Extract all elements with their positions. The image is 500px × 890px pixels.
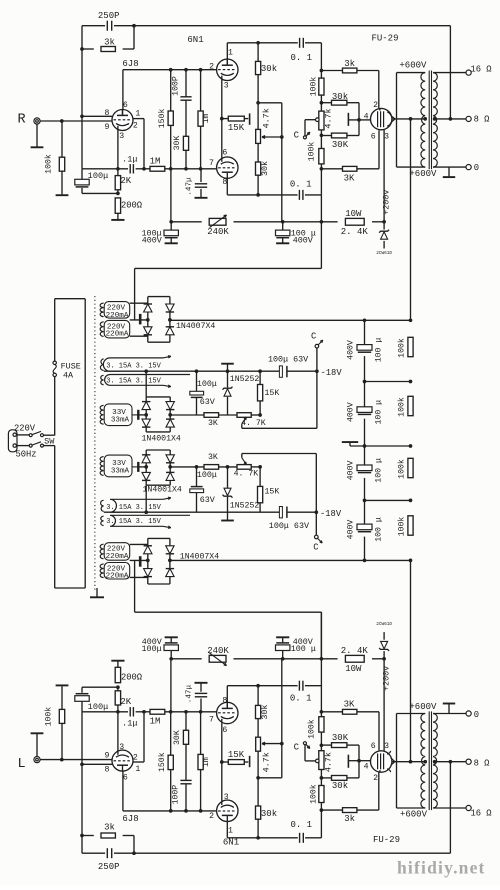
pot arrow 240K R — [210, 215, 227, 228]
arrow C bias1 — [318, 340, 323, 345]
terminal 0 R — [466, 165, 471, 170]
center tap bar 33V bottom — [137, 462, 139, 472]
wire 6N1 lower leg R — [226, 178, 228, 195]
capacitor 100P R — [185, 70, 187, 97]
wire 6N1 plate row R — [227, 42, 297, 44]
svg-text:8 Ω: 8 Ω — [474, 759, 491, 769]
terminal 8ohm R — [466, 116, 471, 121]
svg-text:9: 9 — [105, 752, 110, 761]
node rail cap a R — [281, 220, 285, 224]
wire filter row2 — [365, 381, 411, 383]
node grid tap R — [80, 114, 84, 118]
wire driver rail R — [171, 221, 202, 223]
wire FU29 pin2 stub R — [379, 109, 381, 111]
node rail 150k col R — [169, 220, 173, 224]
terminal 16ohm R — [466, 70, 471, 75]
terminal 16ohm L — [466, 805, 471, 810]
node plate riser L — [142, 710, 146, 714]
node secondary tap R — [433, 117, 437, 121]
wire B+ bottom — [170, 559, 411, 561]
svg-text:+600V: +600V — [409, 169, 437, 179]
node rail cap a L — [281, 657, 285, 661]
resistor 30k upper right L — [257, 819, 259, 838]
svg-text:8: 8 — [105, 109, 110, 118]
svg-text:1N4001X4: 1N4001X4 — [142, 435, 181, 444]
svg-text:10W: 10W — [345, 664, 362, 674]
wire cathode row R — [82, 168, 128, 170]
node secondary tap L — [433, 760, 437, 764]
heater arrow rowA — [163, 498, 171, 500]
resistor 2.4K 10W L — [345, 655, 364, 662]
svg-text:2: 2 — [133, 121, 138, 130]
svg-text:30K: 30K — [332, 140, 349, 150]
node 3K tap fu29 R — [320, 167, 324, 171]
resistor 15K L — [222, 761, 229, 763]
potentiometer 4.7k fu29 R — [319, 111, 324, 130]
transformer OPT core R — [428, 71, 430, 170]
svg-text:1M: 1M — [150, 716, 161, 726]
svg-text:400V: 400V — [142, 236, 162, 246]
svg-text:2CW61D: 2CW61D — [376, 622, 392, 627]
node wiper junction L — [280, 742, 284, 746]
wire 150k rail drop L — [170, 659, 172, 712]
resistor 2.4K 10W R — [345, 218, 364, 225]
switch arrow C R — [303, 136, 306, 139]
resistor 100k lower R — [319, 149, 324, 164]
potentiometer 240K R — [209, 218, 226, 225]
wire plug to switch bottom — [16, 445, 29, 447]
wire 6N1 plate row L — [227, 837, 297, 839]
svg-text:3. 15A 3. 15V: 3. 15A 3. 15V — [106, 378, 161, 386]
resistor 15K R — [222, 118, 229, 120]
wiper arrow 4.7k SRPP L — [262, 743, 282, 745]
node 150k top L — [169, 809, 173, 813]
svg-text:400V: 400V — [293, 637, 313, 647]
svg-text:.47μ: .47μ — [185, 685, 193, 704]
wire FU29 column R — [320, 43, 322, 78]
svg-text:220mA: 220mA — [106, 553, 129, 561]
svg-text:0. 1: 0. 1 — [290, 820, 312, 830]
wire pin4 L — [359, 760, 371, 762]
wire 0 tap L — [433, 713, 466, 715]
tube 6N1 lower L — [217, 702, 238, 723]
svg-text:2: 2 — [209, 812, 214, 821]
svg-text:100k: 100k — [396, 338, 406, 358]
potentiometer 240K L — [209, 655, 226, 662]
node bias1 bridge riser — [144, 369, 148, 373]
capacitor 100P L — [185, 784, 187, 811]
svg-text:+200v: +200v — [382, 190, 392, 215]
capacitor 0.1 top R — [299, 38, 301, 48]
center tap bar bottom — [139, 556, 142, 567]
wire grid pin8 R — [82, 115, 112, 117]
svg-text:R: R — [17, 113, 25, 128]
svg-text:250P: 250P — [98, 11, 120, 21]
node 30K tap fu29 L — [320, 743, 324, 747]
svg-text:15K: 15K — [265, 487, 280, 496]
svg-text:100k: 100k — [396, 397, 406, 417]
transformer core — [94, 296, 96, 591]
node OPT center tap R — [423, 117, 427, 121]
node pin3 column L — [116, 710, 120, 714]
svg-text:200Ω: 200Ω — [121, 673, 143, 683]
svg-text:100k: 100k — [306, 719, 316, 739]
capacitor 100u63V rail2 — [280, 507, 282, 518]
ground bias2 — [221, 520, 234, 522]
resistor 30K grid lower R — [321, 135, 331, 137]
resistor 30k grid upper L — [321, 777, 331, 779]
svg-text:100k: 100k — [308, 77, 318, 97]
resistor 1M L — [150, 709, 165, 714]
svg-text:100k: 100k — [44, 707, 54, 727]
svg-text:1M: 1M — [150, 157, 161, 167]
svg-text:100 μ: 100 μ — [374, 338, 383, 363]
capacitor filter 400V 100u 1 — [357, 345, 372, 351]
terminal -18V bias1 — [315, 369, 319, 373]
resistor 3k feedback L — [101, 833, 115, 838]
resistor 3k feedback R — [101, 47, 115, 52]
capacitor 100u63V rail1 — [280, 366, 282, 377]
wire 6N1 grid bus L — [123, 810, 217, 812]
capacitor 0.1 bottom L — [298, 681, 300, 691]
wire 6J8 pin6 riser L — [122, 771, 124, 811]
svg-text:3k: 3k — [104, 38, 115, 48]
svg-text:0: 0 — [474, 163, 479, 173]
svg-text:1N4001X4: 1N4001X4 — [143, 486, 182, 495]
resistor 30k grid upper R — [321, 102, 331, 104]
svg-text:30k: 30k — [332, 92, 348, 102]
wiper 4.7K bias1 — [242, 417, 247, 424]
svg-text:3: 3 — [119, 132, 124, 141]
zener 200v L — [383, 651, 385, 659]
resistor 30K mid L — [183, 730, 188, 744]
svg-text:6: 6 — [222, 726, 227, 735]
winding 33V 33mA top — [104, 404, 132, 426]
svg-text:3: 3 — [119, 743, 124, 752]
wire left vertical x82 R — [81, 26, 83, 169]
resistor 100k upper R — [319, 78, 324, 95]
wire 16ohm tap R — [433, 72, 466, 74]
svg-text:3K: 3K — [344, 174, 355, 184]
svg-text:0. 1: 0. 1 — [290, 693, 312, 703]
svg-text:FU-29: FU-29 — [373, 835, 400, 845]
connector bar grid FU29 L — [348, 760, 359, 762]
svg-text:30K: 30K — [332, 733, 349, 743]
svg-text:400V: 400V — [293, 236, 313, 246]
wire switch to primary bottom — [44, 445, 55, 447]
connector bar grid FU29 R — [348, 119, 359, 121]
switch SW — [29, 434, 32, 437]
svg-text:150k: 150k — [157, 108, 167, 128]
svg-text:.1μ: .1μ — [122, 154, 137, 164]
fuse FUSE 4A — [53, 361, 56, 364]
svg-text:3: 3 — [224, 793, 229, 802]
node 100P top R — [184, 68, 188, 72]
potentiometer 4.7k SRPP R — [257, 103, 259, 130]
capacitor 100u400V b R — [282, 222, 284, 230]
svg-text:3: 3 — [224, 82, 229, 91]
resistor 3K screen L — [321, 711, 342, 713]
wire 6N1 grid bus R — [123, 69, 217, 71]
node wiper junction R — [280, 135, 284, 139]
wire 3k row L — [82, 835, 94, 837]
svg-text:6J8: 6J8 — [122, 814, 138, 824]
svg-text:3. 15A 3. 15V: 3. 15A 3. 15V — [106, 504, 161, 512]
resistor 1M R — [150, 166, 165, 171]
node 3k tap fu29 R — [320, 69, 324, 73]
resistor 100k bleeder 4 — [408, 516, 413, 535]
capacitor 100u 63V bias1 — [196, 371, 198, 391]
node grid pin4 R — [357, 118, 361, 122]
svg-text:0. 1: 0. 1 — [290, 53, 312, 63]
node 1m bottom L — [199, 710, 203, 714]
wire 3k row R — [82, 48, 94, 50]
wire FU29 pin3 cathode L — [383, 659, 385, 751]
svg-text:8 Ω: 8 Ω — [474, 115, 491, 125]
capacitor 100u400V b L — [282, 651, 284, 659]
capacitor .1u L — [129, 707, 131, 716]
terminal 8ohm L — [466, 759, 471, 764]
winding 220V 220mA 2 — [104, 320, 130, 338]
wire FU29 plate out R — [392, 118, 425, 120]
wire pin6 drop R — [378, 130, 380, 169]
node bias1 cap — [195, 369, 199, 373]
tube 6J8 R — [112, 110, 133, 131]
svg-text:6N1: 6N1 — [223, 837, 239, 847]
resistor 100k input R — [61, 121, 63, 157]
wire bias2 top — [170, 466, 204, 468]
wire FU29 pin2 stub L — [379, 770, 381, 772]
svg-text:2. 4K: 2. 4K — [341, 227, 369, 237]
connector bar 15K L — [249, 756, 251, 767]
node 15K tap R — [220, 117, 224, 121]
node 1m bottom R — [199, 167, 203, 171]
svg-text:30k: 30k — [332, 781, 348, 791]
svg-text:63V: 63V — [200, 495, 215, 505]
svg-text:33mA: 33mA — [111, 467, 130, 475]
svg-text:C: C — [294, 130, 300, 140]
node 2K bottom R — [117, 190, 119, 194]
winding heater bottom rowA — [110, 499, 163, 512]
svg-text:0: 0 — [474, 710, 479, 720]
node bias2 out — [168, 465, 172, 469]
svg-text:100k: 100k — [396, 517, 406, 537]
node 30k top R — [256, 41, 260, 45]
node 30k tap fu29 L — [320, 776, 324, 780]
wire riser right of 3k R — [133, 26, 135, 49]
wire grid pin8 L — [82, 763, 112, 765]
node bridge1 out — [168, 318, 172, 322]
svg-text:1: 1 — [228, 826, 233, 835]
svg-text:3K: 3K — [344, 700, 355, 710]
wire pin4 R — [359, 119, 371, 121]
arrow C bias2 — [318, 538, 323, 543]
svg-text:3k: 3k — [344, 59, 355, 69]
svg-text:1N5252: 1N5252 — [230, 375, 260, 384]
wire B+ top — [170, 319, 411, 321]
capacitor filter 400V 100u 3 — [357, 465, 372, 471]
svg-text:240K: 240K — [207, 646, 229, 656]
svg-text:15K: 15K — [228, 123, 245, 133]
svg-text:+600V: +600V — [409, 702, 437, 712]
capacitor .47u L — [200, 699, 202, 712]
node 3k tap R — [80, 47, 84, 51]
svg-text:2CW61D: 2CW61D — [376, 251, 392, 256]
transformer OPT primary L — [421, 714, 425, 809]
node 30K tap fu29 R — [320, 133, 324, 137]
zener 200v R — [383, 222, 385, 230]
svg-text:240K: 240K — [207, 227, 229, 237]
wire 6N1 plate riser L — [226, 822, 228, 838]
rectifier bridge 1N4001X4 top — [145, 397, 147, 432]
ground transformer — [96, 588, 98, 597]
node bias1 zener — [226, 369, 230, 373]
svg-text:2: 2 — [133, 753, 138, 762]
resistor 100k input L — [61, 723, 63, 759]
node OPT center tap L — [423, 760, 427, 764]
svg-text:3. 15A 3. 15V: 3. 15A 3. 15V — [106, 363, 161, 371]
svg-text:100μ: 100μ — [88, 702, 109, 712]
tube 6J8 L — [112, 750, 133, 771]
svg-text:100μ: 100μ — [197, 470, 217, 480]
resistor 15K bias2 — [259, 467, 261, 487]
capacitor 250P L — [106, 848, 108, 858]
wire SRPP middle L — [221, 724, 223, 801]
node bias1 15K bottom — [258, 413, 262, 417]
wiper 4.7K bias2 — [242, 458, 247, 465]
node 15K tap L — [220, 760, 224, 764]
svg-text:50Hz: 50Hz — [15, 450, 36, 460]
svg-text:3: 3 — [384, 133, 389, 142]
ground bias1 — [221, 363, 234, 365]
node 150k bottom R — [169, 167, 173, 171]
wire rail1 — [104, 370, 280, 372]
svg-text:1m: 1m — [202, 757, 211, 767]
wire wiper loop L — [258, 777, 282, 779]
svg-text:30k: 30k — [260, 705, 270, 720]
transformer OPT core L — [428, 711, 430, 810]
svg-text:3k: 3k — [344, 814, 355, 824]
node grid pin4 L — [357, 759, 361, 763]
node rail zener R — [382, 220, 386, 224]
winding 220V 220mA 3 — [104, 543, 130, 561]
wire 8ohm tap L — [433, 761, 466, 763]
tube FU-29 L — [371, 751, 392, 772]
node grid tap L — [80, 762, 84, 766]
node 30K bottom L — [184, 710, 188, 714]
resistor 100k lower L — [319, 717, 324, 732]
svg-text:100 μ: 100 μ — [374, 517, 383, 542]
wire 150k rail drop R — [170, 169, 172, 222]
svg-text:1N5252: 1N5252 — [230, 502, 260, 511]
svg-text:15K: 15K — [265, 389, 280, 398]
wiper arrow 4.7k SRPP R — [262, 136, 282, 138]
capacitor filter 400V 100u 4 — [357, 524, 372, 530]
wire 6J8 plate to riser R — [133, 118, 144, 120]
svg-text:7: 7 — [209, 716, 214, 725]
svg-text:8: 8 — [105, 766, 110, 775]
svg-text:0. 1: 0. 1 — [290, 180, 312, 190]
svg-text:100P: 100P — [172, 76, 181, 96]
resistor 4.7K bias2 — [237, 465, 251, 470]
rectifier bridge 1N4007X4 top — [130, 302, 148, 304]
svg-text:100k: 100k — [306, 142, 316, 162]
svg-text:4.7k: 4.7k — [261, 752, 271, 772]
svg-text:3: 3 — [384, 742, 389, 751]
svg-text:8: 8 — [222, 697, 227, 706]
resistor 30k upper right R — [257, 43, 259, 62]
wire 8ohm tap R — [433, 118, 466, 120]
svg-text:10W: 10W — [345, 209, 362, 219]
terminal -18V bias2 — [314, 510, 318, 514]
winding 33V 33mA bottom — [104, 455, 132, 477]
svg-text:1N4007X4: 1N4007X4 — [176, 322, 215, 331]
node 30k top L — [256, 836, 260, 840]
svg-text:15K: 15K — [228, 750, 245, 760]
svg-text:3. 15A 3. 15V: 3. 15A 3. 15V — [106, 518, 161, 526]
svg-text:400V: 400V — [346, 460, 355, 480]
resistor 150k L — [170, 770, 172, 811]
heater arrow row1 — [163, 356, 171, 358]
svg-text:6J8: 6J8 — [122, 59, 138, 69]
svg-text:2: 2 — [373, 774, 378, 783]
wire SRPP middle R — [221, 80, 223, 156]
node 30k bottom R — [256, 193, 260, 197]
svg-text:400V: 400V — [346, 520, 355, 540]
pot arrow 240K L — [210, 653, 227, 666]
svg-text:30K: 30K — [173, 136, 182, 151]
switch arrow C L — [303, 742, 306, 745]
ground input jack R — [36, 124, 38, 146]
tube 6N1 upper L — [217, 800, 238, 821]
svg-text:C: C — [311, 332, 316, 342]
transformer OPT secondary R — [433, 73, 437, 168]
resistor 1m L — [200, 770, 202, 811]
svg-text:6: 6 — [123, 774, 128, 783]
svg-text:3K: 3K — [208, 419, 218, 428]
resistor 3k fu29 L — [321, 809, 342, 811]
wire 6J8 plate to riser L — [133, 761, 144, 763]
ground filter mid — [342, 441, 358, 443]
capacitor 100u cathode R — [81, 169, 83, 179]
node 100P top L — [184, 809, 188, 813]
node bias1 out — [168, 413, 172, 417]
svg-text:C: C — [294, 743, 300, 753]
wire 6N1 plate riser R — [226, 43, 228, 59]
capacitor .47u R — [200, 169, 202, 182]
svg-text:4: 4 — [364, 762, 369, 771]
wire bias1 riser — [145, 371, 147, 397]
capacitor 100u cathode L — [81, 701, 83, 711]
wire riser right of 3k L — [133, 836, 135, 854]
svg-text:63V: 63V — [200, 397, 215, 407]
svg-text:1m: 1m — [202, 114, 211, 124]
wiper 4.7k fu29 R — [316, 118, 320, 122]
wire FU29 column L — [320, 803, 322, 838]
wire 6J8 pin6 riser R — [122, 70, 124, 110]
node bridge2 out — [168, 559, 172, 563]
wire bias1 bottom — [170, 414, 204, 416]
svg-text:4. 7K: 4. 7K — [234, 469, 259, 478]
svg-text:.1μ: .1μ — [122, 719, 137, 729]
transformer OPT secondary L — [433, 714, 437, 809]
svg-text:4. 7K: 4. 7K — [241, 419, 266, 428]
resistor 200ohm R — [115, 198, 120, 213]
svg-text:100μ: 100μ — [88, 171, 109, 181]
node input junction L — [60, 758, 64, 762]
resistor 15K bias1 — [259, 371, 261, 384]
wire C riser bias1 — [316, 348, 318, 371]
